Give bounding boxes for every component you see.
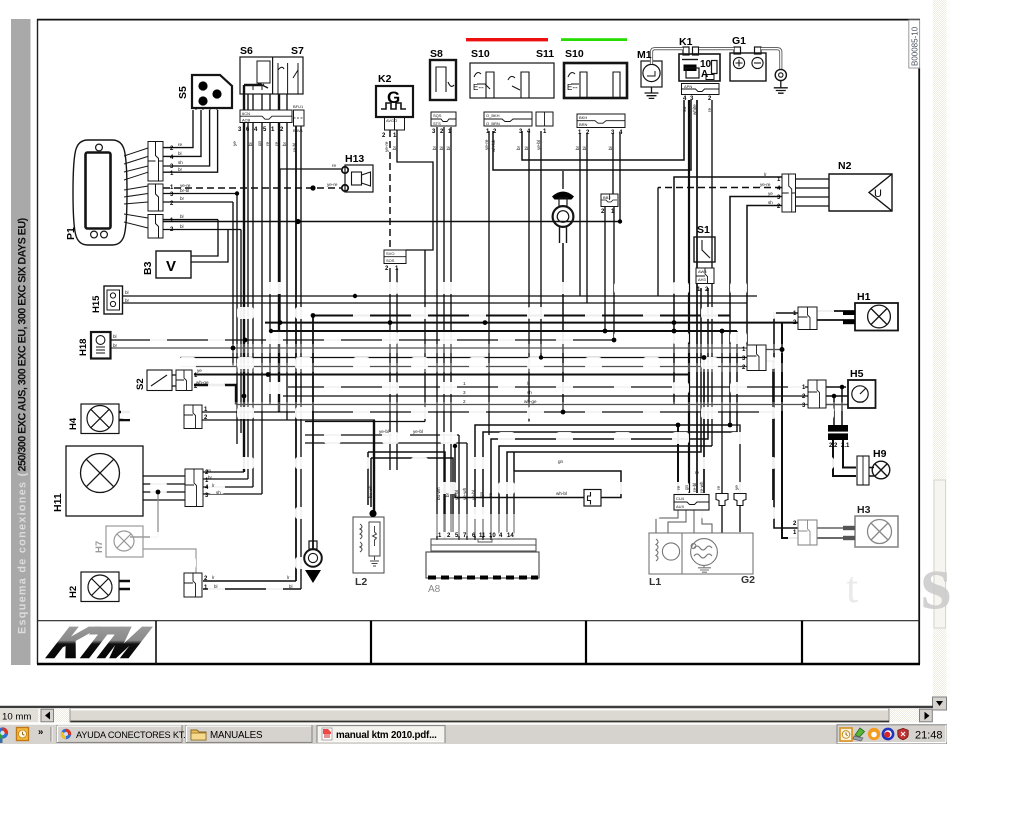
svg-text:H5: H5 (850, 368, 864, 380)
svg-text:bl: bl (248, 142, 253, 146)
svg-text:wh-bk: wh-bk (491, 139, 496, 152)
svg-text:E--: E-- (567, 83, 578, 92)
svg-text:br: br (125, 298, 130, 303)
svg-text:br-bl: br-bl (180, 188, 189, 193)
svg-text:bl: bl (439, 146, 444, 150)
svg-text:white: white (692, 104, 697, 115)
svg-text:BB2: BB2 (603, 195, 611, 200)
svg-text:2: 2 (463, 399, 466, 404)
svg-text:sh: sh (527, 390, 532, 395)
svg-text:bl: bl (214, 584, 217, 589)
svg-text:2.1: 2.1 (841, 443, 850, 449)
svg-text:ACB: ACB (242, 118, 251, 123)
svg-text:S7: S7 (291, 45, 304, 57)
svg-text:br: br (180, 196, 185, 201)
svg-text:H7: H7 (94, 541, 105, 553)
svg-text:10 mm: 10 mm (2, 711, 31, 722)
svg-text:S10: S10 (565, 48, 584, 60)
svg-text:re: re (695, 470, 700, 475)
svg-text:re: re (488, 492, 493, 497)
svg-text:H3: H3 (857, 504, 871, 516)
svg-text:H9: H9 (873, 448, 887, 460)
svg-text:br: br (208, 475, 212, 480)
svg-text:APN: APN (684, 84, 692, 89)
svg-text:bl: bl (178, 151, 182, 156)
svg-text:bl: bl (180, 214, 184, 219)
svg-text:O_BKH: O_BKH (486, 113, 500, 118)
svg-text:STS: STS (433, 121, 441, 126)
svg-text:AVGO: AVGO (386, 118, 397, 123)
svg-text:s: s (921, 538, 951, 625)
svg-text:S6: S6 (240, 45, 253, 57)
svg-text:re: re (716, 485, 721, 490)
svg-text:AUX: AUX (676, 504, 685, 509)
svg-text:re: re (707, 107, 712, 112)
svg-text:S11: S11 (536, 48, 554, 60)
svg-text:H1: H1 (857, 291, 871, 303)
svg-text:gn: gn (479, 491, 484, 497)
svg-text:S1: S1 (697, 224, 710, 236)
svg-text:10: 10 (489, 533, 496, 539)
svg-text:P1: P1 (65, 227, 77, 240)
svg-text:bu-wh: bu-wh (368, 485, 373, 498)
svg-text:bl: bl (608, 146, 613, 150)
svg-text:sh: sh (768, 200, 773, 205)
svg-text:H13: H13 (345, 153, 364, 165)
svg-text:br: br (445, 492, 450, 497)
svg-text:ye-bl: ye-bl (413, 429, 423, 434)
svg-text:br: br (516, 145, 521, 150)
svg-text:ye-bl: ye-bl (379, 429, 389, 434)
svg-text:21:48: 21:48 (915, 730, 943, 742)
svg-text:ye-re: ye-re (327, 182, 338, 187)
svg-text:BKH: BKH (579, 115, 587, 120)
svg-text:U: U (874, 188, 882, 200)
svg-text:br: br (178, 167, 183, 172)
svg-text:ye-re: ye-re (760, 182, 771, 187)
svg-text:bl: bl (289, 584, 292, 589)
svg-text:br: br (432, 145, 437, 150)
svg-text:gn: gn (257, 140, 262, 146)
svg-text:2.2: 2.2 (829, 443, 838, 449)
svg-text:L1: L1 (649, 576, 661, 588)
svg-text:br: br (282, 141, 287, 146)
svg-text:S8: S8 (430, 48, 443, 60)
svg-text:ye: ye (232, 141, 237, 146)
svg-text:wh-ge: wh-ge (524, 399, 537, 404)
svg-text:MANUALES: MANUALES (210, 730, 263, 741)
svg-text:H18: H18 (78, 339, 89, 356)
svg-text:bl: bl (582, 146, 587, 150)
svg-text:BAV1: BAV1 (293, 128, 304, 133)
svg-text:gn: gn (558, 459, 564, 464)
svg-text:K2: K2 (378, 73, 392, 85)
svg-text:SQS: SQS (433, 113, 442, 118)
svg-text:H15: H15 (91, 295, 102, 313)
svg-text:bu-wh: bu-wh (436, 487, 441, 500)
svg-text:H11: H11 (52, 493, 64, 512)
svg-text:E--: E-- (473, 83, 484, 92)
svg-text:ye-re: ye-re (484, 139, 489, 150)
svg-text:6CN: 6CN (242, 111, 250, 116)
svg-text:re: re (676, 485, 681, 490)
svg-text:B00085-10: B00085-10 (911, 26, 920, 66)
svg-text:re-wh: re-wh (699, 481, 704, 493)
svg-text:A8: A8 (428, 584, 441, 595)
svg-text:br: br (392, 145, 397, 150)
svg-text:N2: N2 (838, 160, 852, 172)
svg-text:H4: H4 (68, 417, 79, 430)
svg-text:gn: gn (206, 468, 211, 473)
svg-text:re-bl: re-bl (692, 483, 697, 492)
svg-text:SVO: SVO (386, 251, 394, 256)
svg-text:ye-wh: ye-wh (462, 487, 467, 500)
svg-text:bl: bl (446, 146, 451, 150)
svg-text:S10: S10 (471, 48, 490, 60)
svg-text:re: re (332, 163, 337, 168)
svg-text:G1: G1 (732, 35, 746, 47)
svg-text:ye-bl: ye-bl (536, 140, 541, 150)
svg-text:wh-ge: wh-ge (196, 380, 209, 385)
svg-text:14: 14 (507, 533, 514, 539)
svg-text:1: 1 (463, 381, 466, 386)
svg-text:wh-bl: wh-bl (556, 491, 567, 496)
svg-text:L2: L2 (355, 576, 367, 588)
svg-text:manual ktm 2010.pdf...: manual ktm 2010.pdf... (336, 730, 437, 741)
svg-text:ye: ye (197, 368, 202, 373)
svg-text:AW3: AW3 (698, 269, 707, 274)
svg-text:3: 3 (463, 390, 466, 395)
svg-text:ye-bl: ye-bl (471, 490, 476, 500)
svg-text:gn: gn (684, 484, 689, 490)
svg-text:M1: M1 (637, 49, 652, 61)
svg-text:11: 11 (479, 533, 486, 539)
svg-text:O_BRN: O_BRN (486, 121, 500, 126)
svg-text:sw: sw (682, 106, 687, 112)
svg-text:ye-re: ye-re (384, 141, 389, 152)
svg-text:AH3: AH3 (698, 277, 707, 282)
svg-text:S5: S5 (177, 86, 189, 99)
svg-text:re: re (265, 141, 270, 146)
svg-text:H2: H2 (68, 586, 79, 598)
svg-text:br: br (113, 343, 118, 348)
svg-text:sh: sh (216, 490, 221, 495)
svg-text:A: A (701, 69, 708, 80)
svg-text:bl: bl (113, 334, 117, 339)
svg-text:AYUDA CONECTORES KT...: AYUDA CONECTORES KT... (76, 730, 190, 740)
svg-text:BFU1: BFU1 (293, 104, 304, 109)
svg-text:K1: K1 (679, 36, 693, 48)
svg-text:ye-bl: ye-bl (454, 490, 459, 500)
svg-text:re: re (178, 142, 183, 147)
svg-text:Esquema de conexiones (250/300: Esquema de conexiones (250/300 EXC AUS, … (17, 217, 29, 634)
svg-text:re: re (274, 141, 279, 146)
svg-text:ye: ye (768, 191, 773, 196)
svg-text:G2: G2 (741, 574, 755, 586)
svg-text:»: » (38, 727, 43, 738)
svg-text:G: G (387, 88, 400, 107)
svg-text:CU4: CU4 (676, 496, 685, 501)
svg-text:re-bl: re-bl (292, 143, 297, 152)
svg-text:bl: bl (180, 224, 184, 229)
svg-text:B3: B3 (142, 261, 154, 275)
svg-text:V: V (166, 258, 176, 275)
svg-text:sh: sh (178, 160, 183, 165)
svg-text:S2: S2 (135, 378, 146, 390)
svg-text:SOS: SOS (386, 258, 395, 263)
svg-text:ye: ye (734, 485, 739, 490)
svg-text:bl: bl (125, 290, 129, 295)
svg-text:t: t (846, 563, 858, 612)
svg-text:BRN: BRN (579, 122, 588, 127)
svg-text:bl: bl (524, 146, 529, 150)
svg-text:br: br (575, 145, 580, 150)
